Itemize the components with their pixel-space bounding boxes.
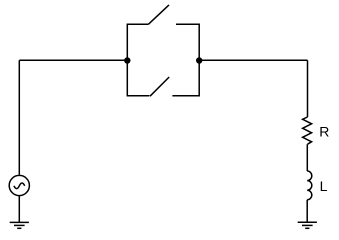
ground (load side) xyxy=(298,222,317,228)
wire (AC source to ground) xyxy=(18,196,20,223)
junction (right node) xyxy=(196,57,202,63)
resistor R xyxy=(303,117,312,144)
svg-text:L: L xyxy=(320,178,328,194)
wire (top bus left horizontal) xyxy=(19,59,127,61)
wire (resistor to inductor) xyxy=(306,144,308,171)
ground (source side) xyxy=(10,222,29,228)
svg-text:R: R xyxy=(319,124,329,140)
AC source xyxy=(9,175,29,195)
wire (inductor to ground) xyxy=(306,200,308,223)
switch S2 (bottom pole) xyxy=(127,61,199,97)
wire (right bus horizontal) xyxy=(199,59,307,61)
wire (right vertical to resistor) xyxy=(307,60,309,117)
switch S1 (top pole) xyxy=(127,5,199,61)
inductor L xyxy=(307,171,312,200)
junction (left node) xyxy=(124,57,130,63)
wire (top bus to AC source, left vertical) xyxy=(18,60,20,174)
